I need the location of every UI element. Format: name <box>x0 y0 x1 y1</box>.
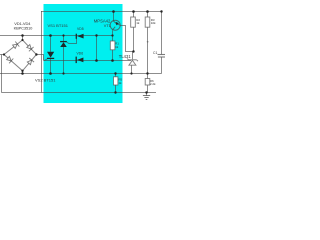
background <box>0 0 165 110</box>
node: VS2 cathode rail <box>49 72 52 75</box>
svg-text:1k: 1k <box>115 45 119 49</box>
diode VD2 (top-right) <box>27 45 34 52</box>
diode VD6 (left-pointing, on y=59.6) <box>76 57 83 64</box>
bridge bottom stub <box>22 71 24 74</box>
wire: transistor collector <box>113 12 115 21</box>
bridge rectifier frame <box>4 36 36 74</box>
svg-text:VT1: VT1 <box>104 24 111 28</box>
svg-text:VS1 BT151: VS1 BT151 <box>48 23 69 28</box>
svg-text:1k: 1k <box>118 81 122 85</box>
node: cap rail <box>160 10 162 12</box>
node: TL431 anode rail <box>130 72 132 74</box>
wire: bridge right output elbow <box>36 55 43 61</box>
svg-text:C1: C1 <box>153 51 157 55</box>
node: emitter link top <box>95 34 97 36</box>
node: VS1 top <box>62 34 64 36</box>
resistor R2 <box>131 17 136 27</box>
wire: left AC stub <box>0 54 4 56</box>
svg-text:VD6: VD6 <box>77 52 84 56</box>
diode VD4 (bottom-right) <box>27 58 34 65</box>
wire: gate bus y=59.6 <box>44 60 132 62</box>
node: R3/R6 rail <box>146 72 148 74</box>
resistor R3 <box>145 17 150 27</box>
wire: emitter right route <box>120 26 133 52</box>
node: bridge left corner <box>3 53 5 55</box>
resistor R1 <box>110 41 115 50</box>
node: collector rail <box>112 10 115 13</box>
wire: cap column x=161.4 <box>161 12 163 55</box>
svg-text:MPSA42: MPSA42 <box>94 19 111 24</box>
transistor VT1 MPSA42 <box>110 20 120 30</box>
svg-text:VD5: VD5 <box>77 27 84 31</box>
node: VS1 bottom rail <box>62 72 64 74</box>
wire: R5 column x=117 <box>115 74 117 77</box>
node: emitter/TL431 <box>132 50 134 52</box>
svg-text:VS2 BT151: VS2 BT151 <box>35 78 56 83</box>
svg-text:1k: 1k <box>136 21 140 25</box>
node: emitter link gate bus <box>95 59 98 62</box>
diode VD1 (top-left) <box>13 42 20 49</box>
wire: VS2 gate diagonal <box>44 59 47 61</box>
wire: transistor base/R1 column <box>112 30 114 41</box>
diode VD3 (bottom-left) <box>7 56 14 63</box>
junction dots <box>3 10 163 94</box>
node: R6 bottom / ground <box>145 91 147 93</box>
node: R2 rail <box>132 10 135 13</box>
bridge top stub <box>22 36 24 41</box>
wire: VS1 column x=63.2 <box>63 36 65 42</box>
node: R5 bottom <box>114 91 116 93</box>
svg-text:10k: 10k <box>151 21 156 25</box>
resistor R5 <box>114 77 118 85</box>
wire: R6 column <box>147 74 149 79</box>
diode VD5 (left-pointing, on y=35.7) <box>76 34 83 39</box>
node: bridge bottom corner <box>21 70 23 72</box>
node: base junction <box>111 34 113 36</box>
svg-text:KBPC3510: KBPC3510 <box>14 25 34 30</box>
node: bridge right corner <box>35 53 37 55</box>
ground <box>143 96 150 100</box>
node: bridge top corner <box>21 39 23 41</box>
wire: VS2 anode drop <box>50 36 52 52</box>
wire: bottom return y=92.4 <box>2 92 157 94</box>
wire: R3 column x=147.5 <box>147 12 149 18</box>
capacitor C1 <box>158 55 166 58</box>
wire: VS2 cathode drop <box>50 59 52 74</box>
node: R3 rail <box>146 10 149 13</box>
svg-text:TL431: TL431 <box>119 54 132 59</box>
svg-text:2.2k: 2.2k <box>150 82 156 86</box>
node: bridge top wire <box>21 34 24 37</box>
transistor emitter arrow <box>116 22 119 26</box>
cyan highlight box <box>44 4 123 103</box>
wire: VS1 gate diagonal + link <box>67 39 77 44</box>
thyristor VS2 (down, x=50.6) <box>47 52 54 59</box>
ground stub <box>146 93 148 96</box>
node: VS2 anode <box>49 34 52 37</box>
wire: top rail y=11 <box>41 11 162 13</box>
node: stray junction on R3 column <box>147 41 149 43</box>
resistor R6 <box>145 79 150 86</box>
node: R1 bottom <box>111 59 114 62</box>
node: R5 rail <box>114 72 116 74</box>
thyristor VS1 (up, x=63.2) <box>60 42 67 47</box>
node: bridge bottom rail <box>21 72 24 75</box>
wire: main upper wire y=35.7 <box>0 35 113 37</box>
wire: mid rail y=73 <box>0 73 162 75</box>
wire: left down route x=1.5 <box>1 55 3 93</box>
TL431 U1 symbol <box>127 58 138 65</box>
wire: R2/TL431 column <box>133 12 135 18</box>
wire: emitter link x=96.7 <box>96 36 98 61</box>
wire: left vertical x=41 <box>41 11 43 93</box>
